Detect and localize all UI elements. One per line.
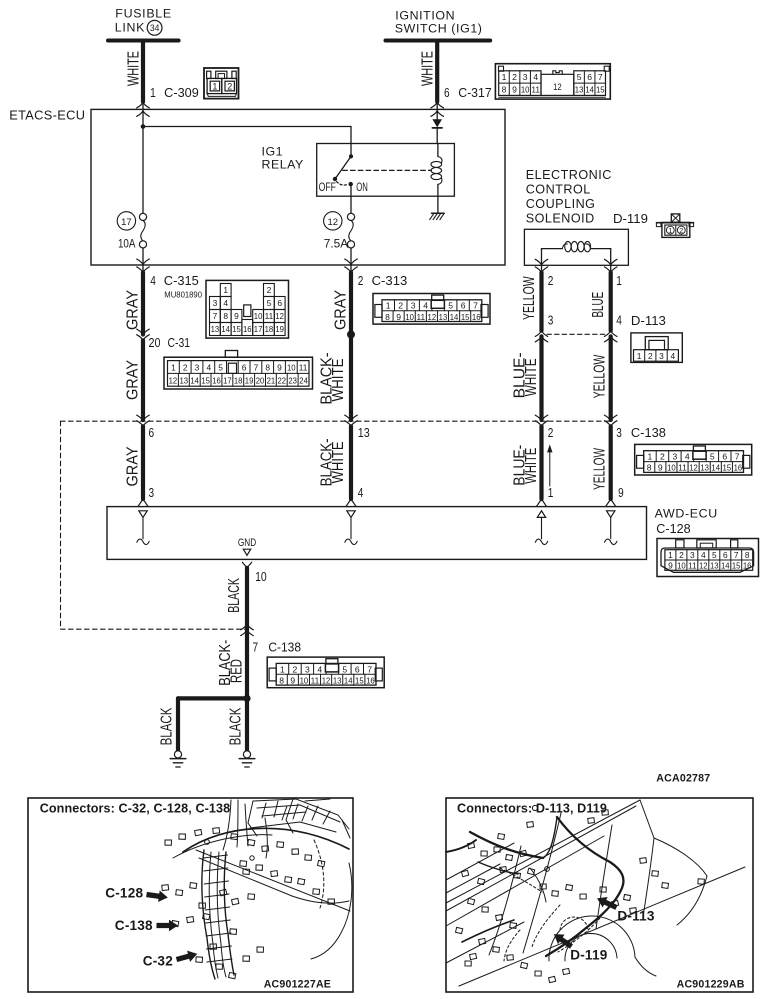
svg-text:19: 19 — [245, 375, 254, 385]
wire BLACK-WHITE (splice to crossing pin 13) — [319, 335, 352, 421]
svg-text:12: 12 — [689, 463, 698, 473]
svg-text:23: 23 — [288, 375, 297, 385]
wire ignition pin6 down to relay coil — [436, 109, 438, 119]
svg-text:C-138: C-138 — [631, 426, 666, 440]
svg-text:C-315: C-315 — [164, 274, 199, 288]
wire BLACK-RED label — [217, 640, 246, 686]
svg-text:5: 5 — [577, 72, 582, 82]
svg-text:6: 6 — [355, 664, 360, 674]
svg-text:16: 16 — [366, 675, 375, 685]
svg-text:9: 9 — [277, 363, 282, 373]
solenoid coil L2 — [542, 241, 611, 251]
svg-text:GRAY: GRAY — [125, 290, 142, 330]
svg-text:2: 2 — [267, 285, 272, 295]
svg-text:1: 1 — [386, 301, 391, 311]
pin 7 label and connector C-138 ref — [253, 641, 302, 655]
svg-text:OFF: OFF — [319, 181, 336, 194]
svg-text:9: 9 — [658, 463, 663, 473]
junction node at (143,126.5) — [141, 124, 146, 129]
crossing marks at x=143 y=421 — [137, 415, 150, 421]
svg-text:6: 6 — [444, 86, 450, 100]
svg-text:1: 1 — [223, 285, 228, 295]
svg-text:3: 3 — [523, 72, 528, 82]
svg-text:WHITE: WHITE — [420, 51, 437, 86]
svg-text:12: 12 — [275, 311, 284, 321]
svg-text:7: 7 — [473, 301, 478, 311]
svg-text:13: 13 — [358, 426, 370, 440]
svg-text:7: 7 — [598, 72, 603, 82]
relay actuation dashed link — [343, 169, 432, 171]
svg-text:2: 2 — [512, 72, 517, 82]
svg-text:ELECTRONIC: ELECTRONIC — [526, 168, 612, 182]
crossing marks at x=351 y=421 — [345, 415, 358, 421]
wire BLACK (GND to C-138 pin 7) — [226, 568, 247, 699]
right panel vehicle sketch — [446, 800, 745, 986]
body ground left — [170, 751, 186, 767]
wire GRAY (pin2 to splice) — [332, 272, 351, 334]
svg-text:2: 2 — [548, 274, 554, 288]
svg-text:14: 14 — [344, 675, 353, 685]
svg-text:18: 18 — [234, 375, 243, 385]
svg-text:2: 2 — [648, 351, 653, 361]
svg-text:13: 13 — [439, 312, 448, 322]
svg-text:17: 17 — [121, 217, 132, 228]
svg-text:1: 1 — [502, 72, 507, 82]
svg-text:1: 1 — [548, 486, 554, 500]
junction splice dot on black-white wire — [347, 331, 355, 339]
wire YELLOW (solenoid 2 to D-113 pin 3) — [521, 272, 542, 330]
wire BLUE-WHITE (to AWD-ECU pin 1) — [512, 426, 542, 499]
svg-text:7: 7 — [735, 452, 740, 462]
svg-text:4: 4 — [685, 452, 690, 462]
svg-text:16: 16 — [212, 375, 221, 385]
svg-text:18: 18 — [265, 324, 274, 334]
pin labels at boundary crossing — [149, 426, 666, 440]
svg-text:C-128: C-128 — [105, 886, 143, 901]
svg-text:4: 4 — [317, 664, 322, 674]
svg-text:SOLENOID: SOLENOID — [526, 211, 595, 225]
svg-text:2: 2 — [679, 550, 684, 560]
pin 4 label and connector C-315 ref — [150, 274, 202, 299]
svg-text:YELLOW: YELLOW — [521, 276, 538, 320]
pin 20 label and connector C-31 ref — [149, 336, 191, 350]
svg-text:4: 4 — [423, 301, 428, 311]
svg-text:8: 8 — [385, 312, 390, 322]
wire GRAY (pin4 to C-31 pin 20) — [125, 272, 144, 334]
wire WHITE from ignition switch to ETACS-ECU pin 6 C-317 — [420, 43, 444, 117]
svg-text:12: 12 — [322, 675, 331, 685]
svg-text:14: 14 — [190, 375, 199, 385]
svg-text:2: 2 — [358, 274, 364, 288]
svg-text:5: 5 — [342, 664, 347, 674]
svg-text:6: 6 — [277, 298, 282, 308]
svg-text:GRAY: GRAY — [125, 360, 142, 400]
svg-text:3: 3 — [195, 363, 200, 373]
svg-text:14: 14 — [711, 463, 720, 473]
svg-text:6: 6 — [587, 72, 592, 82]
svg-text:9: 9 — [512, 85, 517, 95]
svg-text:AC901227AE: AC901227AE — [264, 978, 331, 990]
svg-text:14: 14 — [585, 85, 594, 95]
svg-text:C-309: C-309 — [164, 86, 199, 100]
svg-text:WHITE: WHITE — [523, 448, 540, 484]
svg-text:13: 13 — [211, 324, 220, 334]
svg-text:9: 9 — [396, 312, 401, 322]
svg-text:2: 2 — [660, 452, 665, 462]
svg-text:11: 11 — [531, 85, 540, 95]
svg-text:15: 15 — [732, 560, 741, 570]
right panel label D-119 with arrow — [551, 929, 608, 962]
svg-text:YELLOW: YELLOW — [592, 354, 609, 398]
connector icon C-138 (lower) (16-pin) — [267, 657, 384, 688]
svg-text:C-32: C-32 — [143, 954, 174, 969]
wire entry tent at x=351 into AWD-ECU — [346, 499, 356, 506]
svg-text:7: 7 — [254, 363, 259, 373]
svg-text:4: 4 — [670, 351, 675, 361]
svg-text:9: 9 — [618, 486, 624, 500]
svg-text:10: 10 — [255, 570, 267, 584]
svg-text:8: 8 — [647, 463, 652, 473]
svg-text:4: 4 — [701, 550, 706, 560]
svg-text:GRAY: GRAY — [125, 447, 142, 487]
svg-text:3: 3 — [411, 301, 416, 311]
svg-text:11: 11 — [416, 312, 425, 322]
wire junction to IG1 relay switch — [143, 126, 351, 128]
svg-text:12: 12 — [328, 217, 339, 228]
connector icon C-315 (19-pin) — [206, 280, 289, 338]
svg-text:16: 16 — [734, 463, 743, 473]
svg-text:GND: GND — [238, 537, 257, 549]
svg-text:6: 6 — [461, 301, 466, 311]
wire exit solenoid pin 1 — [604, 259, 617, 272]
svg-text:16: 16 — [743, 560, 752, 570]
svg-text:Connectors: C-32, C-128, C-138: Connectors: C-32, C-128, C-138 — [40, 801, 231, 815]
connector icon D-119 (2-pin) — [656, 214, 693, 238]
svg-text:12: 12 — [553, 82, 562, 92]
svg-text:15: 15 — [355, 675, 364, 685]
svg-text:20: 20 — [256, 375, 265, 385]
left location panel: Connectors C-32, C-128, C-138 — [28, 798, 353, 992]
AWD-ECU box — [107, 506, 718, 559]
svg-text:7: 7 — [253, 641, 259, 655]
svg-text:5: 5 — [218, 363, 223, 373]
wire entry tent at x=541.5 into AWD-ECU — [537, 499, 547, 506]
pin 1 label and connector C-309 ref — [150, 86, 199, 100]
connector icon C-309 (2-pin) — [204, 68, 239, 99]
svg-text:GRAY: GRAY — [332, 290, 349, 330]
svg-text:6: 6 — [149, 426, 155, 440]
svg-text:11: 11 — [265, 311, 274, 321]
chassis ground (relay coil) — [430, 213, 445, 219]
left panel label C-32 with arrow — [143, 948, 199, 968]
wire coil to chassis ground — [437, 196, 439, 213]
wire BLUE (solenoid 1 to D-113 pin 4) — [590, 272, 611, 330]
svg-text:21: 21 — [267, 375, 276, 385]
wire WHITE from fusible link to ETACS-ECU pin 1 C-309 — [126, 43, 150, 117]
svg-text:11: 11 — [678, 463, 687, 473]
svg-text:1: 1 — [648, 452, 653, 462]
svg-text:3: 3 — [673, 452, 678, 462]
svg-text:WHITE: WHITE — [126, 51, 143, 86]
svg-text:10: 10 — [667, 463, 676, 473]
svg-text:AC901229AB: AC901229AB — [677, 978, 745, 990]
svg-text:5: 5 — [712, 550, 717, 560]
svg-text:3: 3 — [305, 664, 310, 674]
crossing marks at x=610.7 y=421 — [604, 415, 617, 421]
svg-text:2: 2 — [679, 226, 683, 235]
AWD-ECU pin 4 input symbol — [345, 511, 357, 545]
svg-text:3: 3 — [149, 486, 155, 500]
dashed harness boundary with C-138 crossings — [61, 421, 611, 629]
AWD-ECU pin 3 input symbol — [137, 511, 149, 545]
svg-text:3: 3 — [690, 550, 695, 560]
diode (relay coil clamp) — [432, 119, 442, 128]
solenoid wires to box bottom — [541, 249, 543, 266]
svg-text:MU801890: MU801890 — [164, 291, 202, 300]
left panel label C-138 with arrow — [115, 918, 178, 933]
fuse 12 (7.5A) — [324, 184, 355, 250]
wire exit solenoid pin 2 — [535, 259, 548, 272]
svg-text:1: 1 — [637, 351, 642, 361]
connector icon C-128 (16-pin, AWD-ECU) — [657, 539, 759, 577]
svg-text:RED: RED — [229, 659, 246, 683]
node IGNITION SWITCH (IG1) title — [386, 8, 491, 40]
svg-text:BLACK: BLACK — [159, 707, 176, 745]
svg-text:2: 2 — [398, 301, 403, 311]
wire BLACK-WHITE (to AWD-ECU pin 4) — [319, 426, 352, 499]
svg-text:IGNITION: IGNITION — [395, 8, 455, 22]
relay coil L1 — [431, 144, 442, 197]
ELECTRONIC CONTROL COUPLING SOLENOID label — [526, 168, 612, 225]
svg-text:15: 15 — [232, 324, 241, 334]
svg-text:13: 13 — [710, 560, 719, 570]
fuse 17 (10A) — [117, 212, 146, 251]
svg-text:34: 34 — [150, 23, 160, 33]
svg-text:BLACK: BLACK — [226, 578, 243, 613]
svg-text:C-138: C-138 — [268, 641, 301, 655]
svg-text:C-313: C-313 — [372, 274, 408, 288]
svg-text:FUSIBLE: FUSIBLE — [115, 6, 172, 20]
ETACS-ECU box — [9, 107, 505, 265]
svg-text:15: 15 — [723, 463, 732, 473]
svg-text:4: 4 — [616, 313, 622, 327]
svg-text:7.5A: 7.5A — [324, 237, 349, 251]
svg-text:12: 12 — [699, 560, 708, 570]
wire BLACK left ground branch — [159, 698, 179, 750]
svg-text:ETACS-ECU: ETACS-ECU — [9, 107, 85, 122]
svg-text:4: 4 — [358, 486, 364, 500]
svg-text:2: 2 — [227, 82, 232, 92]
svg-text:6: 6 — [723, 550, 728, 560]
left panel label C-128 with arrow — [105, 886, 168, 904]
svg-text:5: 5 — [710, 452, 715, 462]
left panel connector cluster boxes — [162, 828, 335, 979]
svg-text:RELAY: RELAY — [262, 157, 304, 171]
svg-text:1: 1 — [150, 86, 156, 100]
connector icon C-31 (24-pin) — [164, 351, 313, 390]
svg-text:7: 7 — [734, 550, 739, 560]
svg-text:24: 24 — [299, 375, 308, 385]
svg-text:8: 8 — [745, 550, 750, 560]
wire YELLOW (D-113 to C-138 pin 3) — [592, 336, 611, 420]
svg-text:1: 1 — [171, 363, 176, 373]
inline connector crossing C-138 pin 7 — [241, 624, 254, 635]
svg-text:ACA02787: ACA02787 — [656, 773, 710, 785]
svg-text:3: 3 — [616, 426, 622, 440]
svg-text:1: 1 — [280, 664, 285, 674]
wire exit ETACS pin 2 (C-313) — [345, 259, 358, 273]
svg-text:17: 17 — [254, 324, 263, 334]
pin 6 label and connector C-317 ref — [444, 86, 492, 100]
svg-text:11: 11 — [688, 560, 697, 570]
svg-text:WHITE: WHITE — [330, 359, 347, 402]
svg-text:15: 15 — [201, 375, 210, 385]
GND pin of AWD-ECU — [238, 537, 257, 555]
svg-text:9: 9 — [290, 675, 295, 685]
svg-text:4: 4 — [150, 274, 156, 288]
svg-text:4: 4 — [206, 363, 211, 373]
svg-text:4: 4 — [223, 298, 228, 308]
wire entry tent at x=610.7 into AWD-ECU — [606, 499, 616, 506]
wire BLUE-WHITE (D-113 to C-138 pin 2) — [512, 336, 542, 420]
right panel connector cluster boxes — [456, 805, 705, 982]
svg-text:7: 7 — [213, 311, 218, 321]
wire inside ETACS: pin1 down to fuse 17 — [142, 109, 144, 213]
svg-text:19: 19 — [275, 324, 284, 334]
inline connector crossing D-113 — [535, 331, 617, 342]
svg-text:9: 9 — [668, 560, 673, 570]
svg-text:C-128: C-128 — [656, 522, 690, 536]
svg-text:9: 9 — [234, 311, 239, 321]
node FUSIBLE LINK (34) title — [108, 6, 179, 40]
AWD-ECU pin 9 input symbol — [605, 511, 617, 545]
svg-text:5: 5 — [448, 301, 453, 311]
svg-text:13: 13 — [333, 675, 342, 685]
svg-text:13: 13 — [575, 85, 584, 95]
svg-text:15: 15 — [596, 85, 605, 95]
svg-text:8: 8 — [279, 675, 284, 685]
wire to left ground branch — [178, 696, 247, 700]
svg-text:13: 13 — [700, 463, 709, 473]
svg-text:2: 2 — [548, 426, 554, 440]
svg-text:LINK: LINK — [115, 21, 145, 35]
signal direction arrow — [547, 444, 552, 486]
wire entry tent at x=143 into AWD-ECU — [138, 499, 148, 506]
svg-text:11: 11 — [311, 675, 320, 685]
right location panel: Connectors D-113, D119 — [446, 798, 753, 992]
svg-text:20: 20 — [149, 336, 161, 350]
svg-text:6: 6 — [722, 452, 727, 462]
connector icon C-138 (right) (16-pin) — [635, 444, 752, 475]
svg-text:1: 1 — [668, 550, 673, 560]
svg-text:3: 3 — [548, 313, 554, 327]
wire GRAY (to AWD-ECU pin 3) — [125, 426, 144, 499]
inline connector crossing C-31 pin 20 — [137, 329, 150, 340]
right panel label D-113 with arrow — [595, 893, 655, 923]
connector icon D-113 (4-pin) — [631, 333, 682, 363]
svg-text:BLUE: BLUE — [590, 292, 607, 318]
svg-text:1: 1 — [668, 226, 672, 235]
svg-text:ON: ON — [356, 181, 368, 194]
junction node ground split — [243, 695, 250, 702]
svg-text:D-119: D-119 — [613, 212, 648, 226]
svg-text:10: 10 — [300, 675, 309, 685]
svg-text:10: 10 — [287, 363, 296, 373]
svg-text:5: 5 — [267, 298, 272, 308]
svg-text:10A: 10A — [118, 237, 136, 251]
svg-text:WHITE: WHITE — [330, 441, 347, 483]
svg-text:16: 16 — [243, 324, 252, 334]
relay switch (OFF/ON contacts) — [319, 154, 368, 194]
svg-text:AWD-ECU: AWD-ECU — [655, 506, 718, 520]
connector icon C-313 (16-pin) — [373, 294, 490, 325]
wire BLACK right ground branch — [228, 698, 248, 750]
AWD-ECU pin 1 output symbol — [535, 511, 547, 545]
svg-text:2: 2 — [293, 664, 298, 674]
wire exit AWD-ECU GND pin 10 — [242, 562, 266, 584]
svg-text:17: 17 — [223, 375, 232, 385]
left panel harness sketch — [173, 799, 352, 979]
svg-text:C-317: C-317 — [458, 86, 492, 100]
svg-text:12: 12 — [428, 312, 437, 322]
svg-text:COUPLING: COUPLING — [526, 197, 596, 211]
body ground right — [239, 751, 255, 767]
svg-text:1: 1 — [212, 82, 217, 92]
solenoid box — [524, 229, 628, 265]
IG1 RELAY box — [262, 144, 455, 197]
svg-text:D-113: D-113 — [617, 908, 655, 923]
svg-text:22: 22 — [278, 375, 287, 385]
svg-text:8: 8 — [265, 363, 270, 373]
svg-text:10: 10 — [254, 311, 263, 321]
svg-text:D-119: D-119 — [570, 948, 608, 963]
connector icon C-317 (15-pin) — [495, 64, 610, 99]
svg-text:11: 11 — [299, 363, 308, 373]
svg-text:D-113: D-113 — [631, 314, 666, 328]
svg-text:C-31: C-31 — [168, 336, 191, 350]
svg-text:BLACK: BLACK — [228, 707, 245, 745]
svg-text:10: 10 — [521, 85, 530, 95]
svg-text:8: 8 — [502, 85, 507, 95]
svg-text:14: 14 — [450, 312, 459, 322]
svg-text:SWITCH (IG1): SWITCH (IG1) — [395, 22, 483, 36]
pin 2 label and connector C-313 ref — [358, 274, 408, 288]
wire YELLOW (to AWD-ECU pin 9) — [592, 426, 611, 499]
svg-text:10: 10 — [677, 560, 686, 570]
svg-text:1: 1 — [616, 274, 622, 288]
svg-text:14: 14 — [721, 560, 730, 570]
svg-text:15: 15 — [461, 312, 470, 322]
svg-text:13: 13 — [180, 375, 189, 385]
svg-text:3: 3 — [213, 298, 218, 308]
svg-text:7: 7 — [367, 664, 372, 674]
crossing marks at x=541.5 y=421 — [535, 415, 548, 421]
svg-text:CONTROL: CONTROL — [526, 183, 591, 197]
wire GRAY (C-31 to C-138 crossing pin 6) — [125, 340, 144, 420]
svg-text:10: 10 — [405, 312, 414, 322]
svg-text:4: 4 — [533, 72, 538, 82]
svg-text:12: 12 — [169, 375, 178, 385]
svg-text:14: 14 — [221, 324, 230, 334]
svg-text:C-138: C-138 — [115, 918, 153, 933]
wire exit ETACS pin 4 (C-315) — [137, 259, 150, 273]
svg-text:3: 3 — [659, 351, 664, 361]
svg-text:16: 16 — [472, 312, 481, 322]
svg-text:8: 8 — [223, 311, 228, 321]
svg-text:WHITE: WHITE — [523, 358, 540, 396]
svg-text:2: 2 — [183, 363, 188, 373]
svg-text:6: 6 — [242, 363, 247, 373]
